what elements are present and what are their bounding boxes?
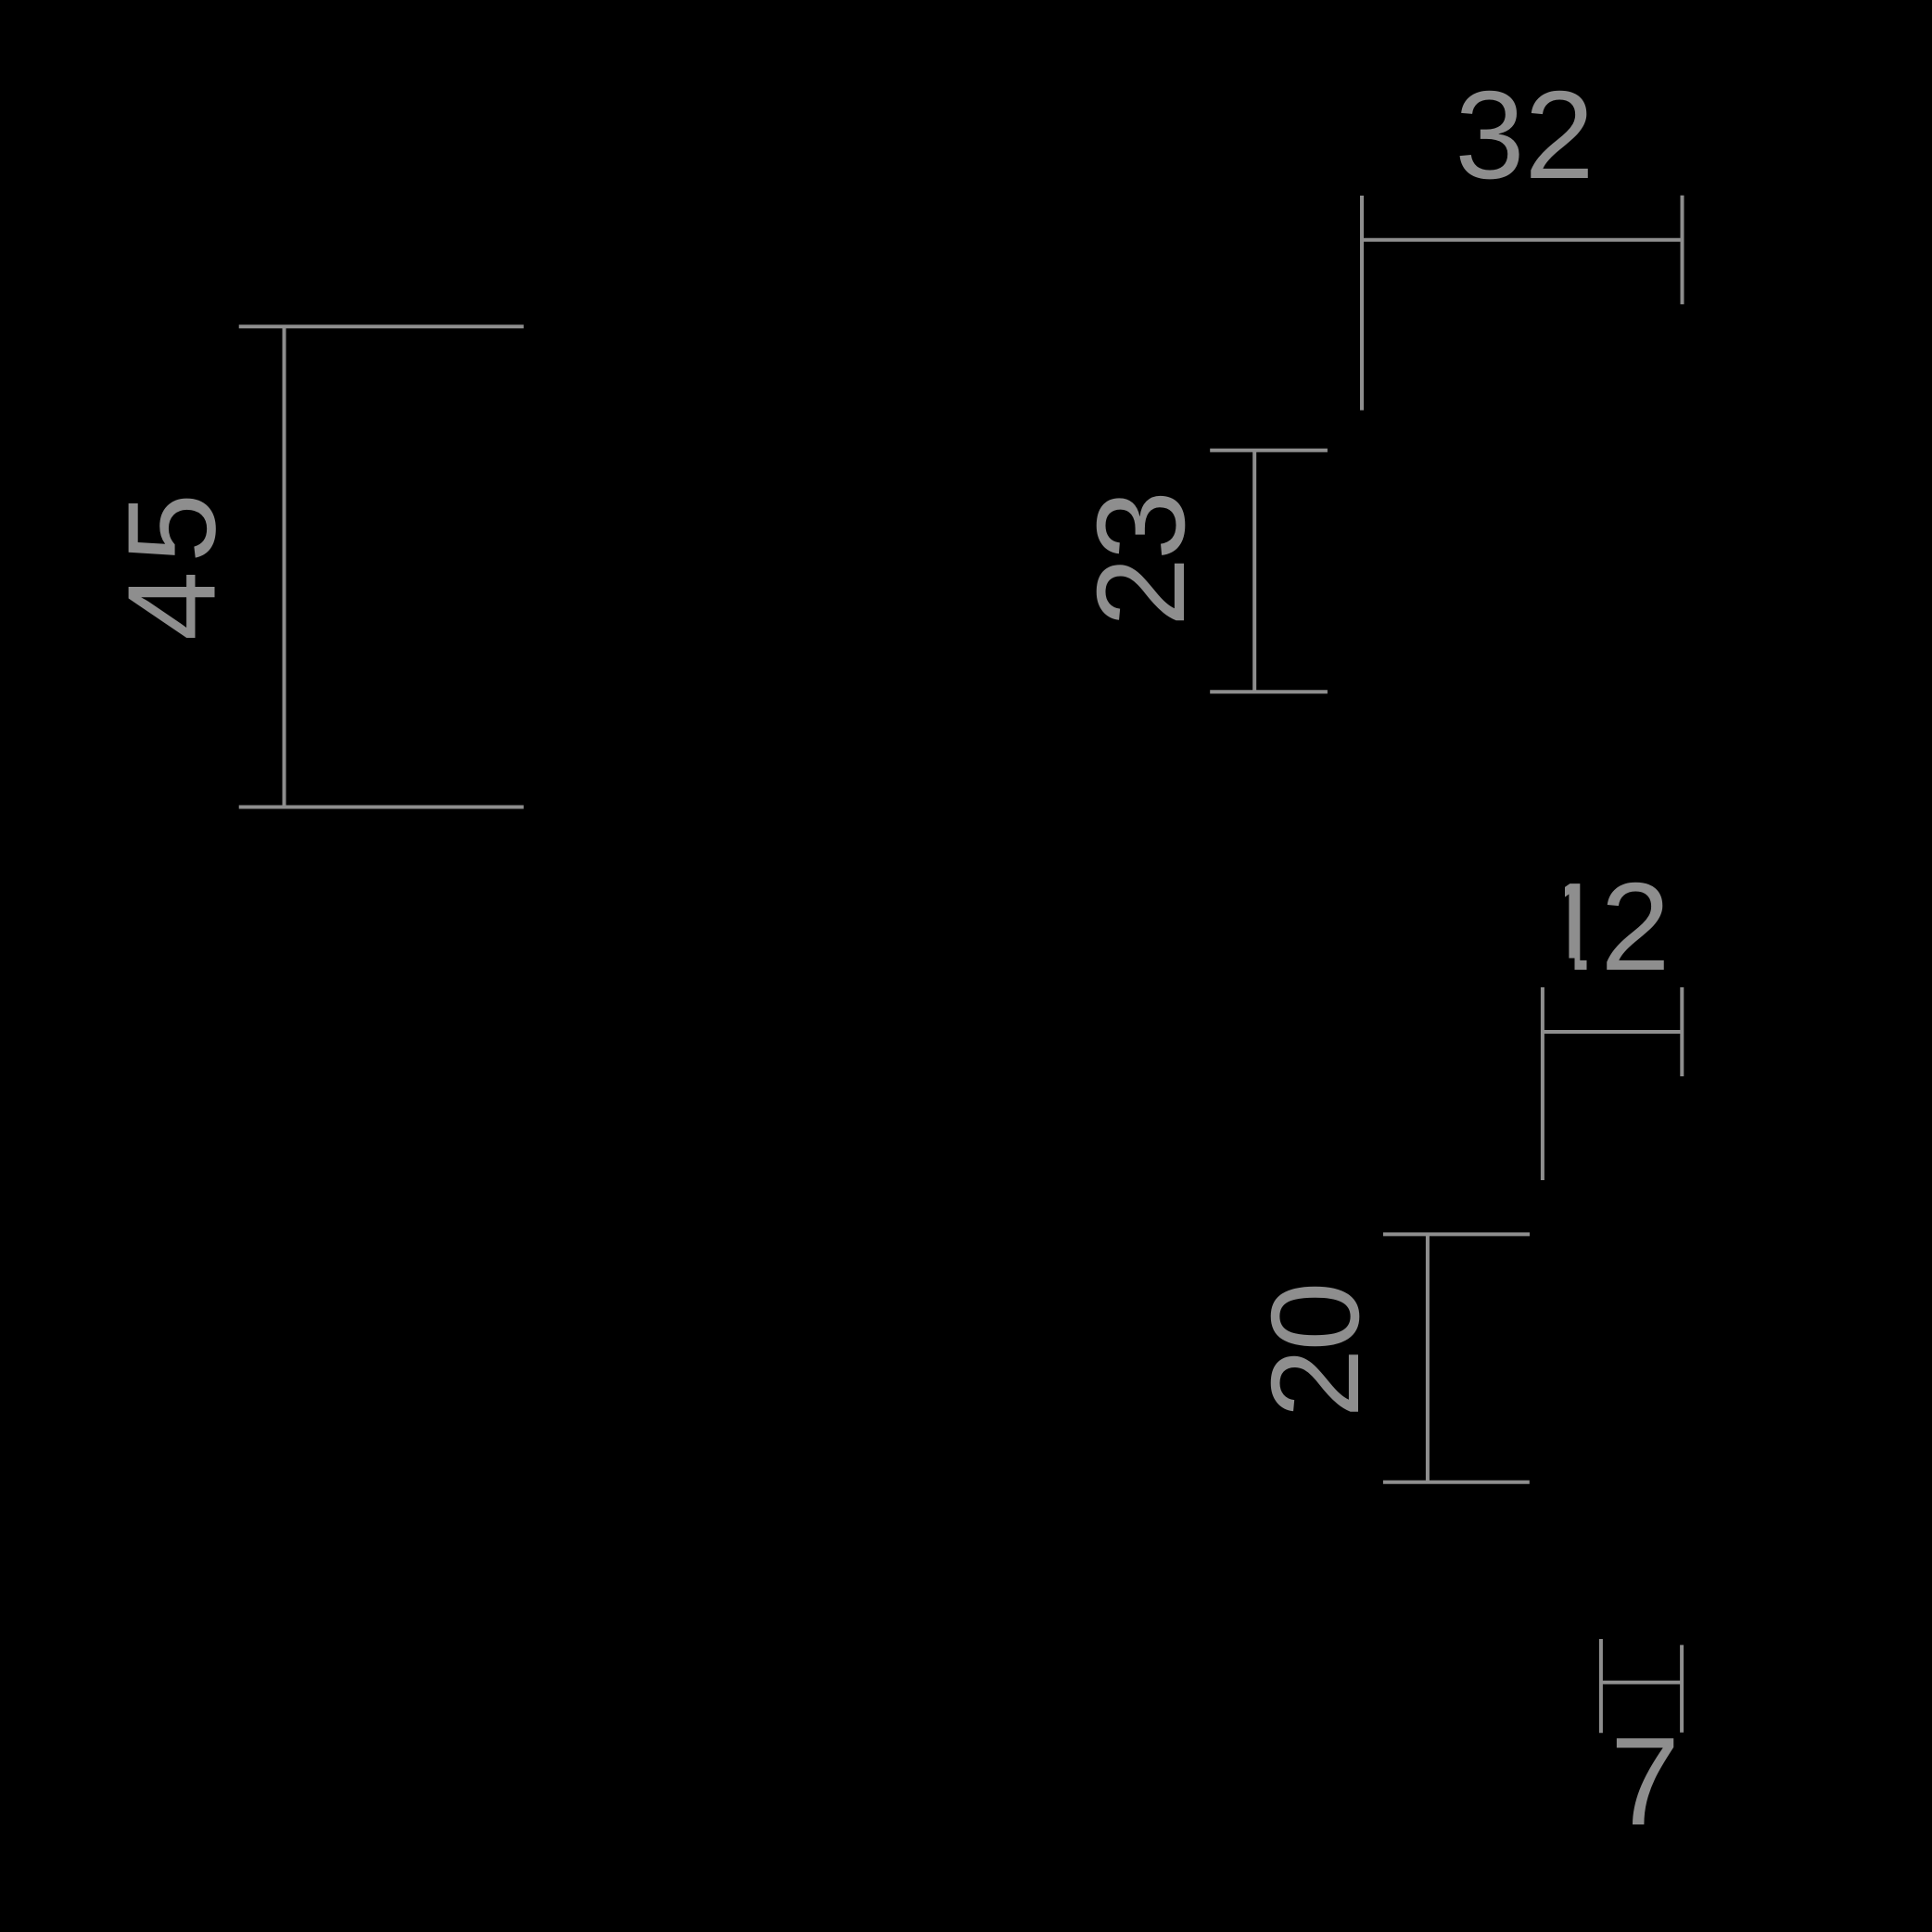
dimension 12: value label "12" <box>1537 857 1607 997</box>
svg-text:7: 7 <box>1610 1711 1680 1851</box>
dimension 32: left extension tick <box>1360 196 1364 411</box>
dimension 23: top extension tick <box>1210 449 1328 452</box>
dimension 12: horizontal dimension line <box>1543 1030 1682 1034</box>
dimension 7: horizontal dimension line (bottom right) <box>1601 1681 1682 1684</box>
dimension 20: vertical dimension line <box>1426 1234 1430 1481</box>
dimension 12: right extension tick <box>1680 987 1684 1076</box>
dimension 45: top extension tick <box>239 324 524 328</box>
svg-text:20: 20 <box>1245 1284 1385 1417</box>
dimension 7: left extension tick <box>1599 1639 1603 1733</box>
dimension 23: bottom extension tick <box>1210 690 1328 693</box>
dimension 23: vertical dimension line (middle right) <box>1252 451 1256 693</box>
dimension 45: vertical dimension line (left) <box>283 326 286 807</box>
dimension 32: horizontal dimension line (top right) <box>1362 238 1683 242</box>
dimension 12: left extension tick (long, extends down) <box>1541 987 1544 1180</box>
dimension 20: top extension tick <box>1383 1232 1530 1236</box>
svg-text:32: 32 <box>1455 65 1594 205</box>
dimension 32: right extension tick <box>1681 196 1684 305</box>
svg-text:2: 2 <box>1600 857 1670 997</box>
dimension 20: bottom extension tick <box>1383 1481 1530 1484</box>
dimension 7: right extension tick <box>1680 1645 1684 1732</box>
dimension 45: bottom extension tick <box>239 806 524 809</box>
svg-text:45: 45 <box>102 485 242 641</box>
svg-text:23: 23 <box>1071 493 1211 627</box>
